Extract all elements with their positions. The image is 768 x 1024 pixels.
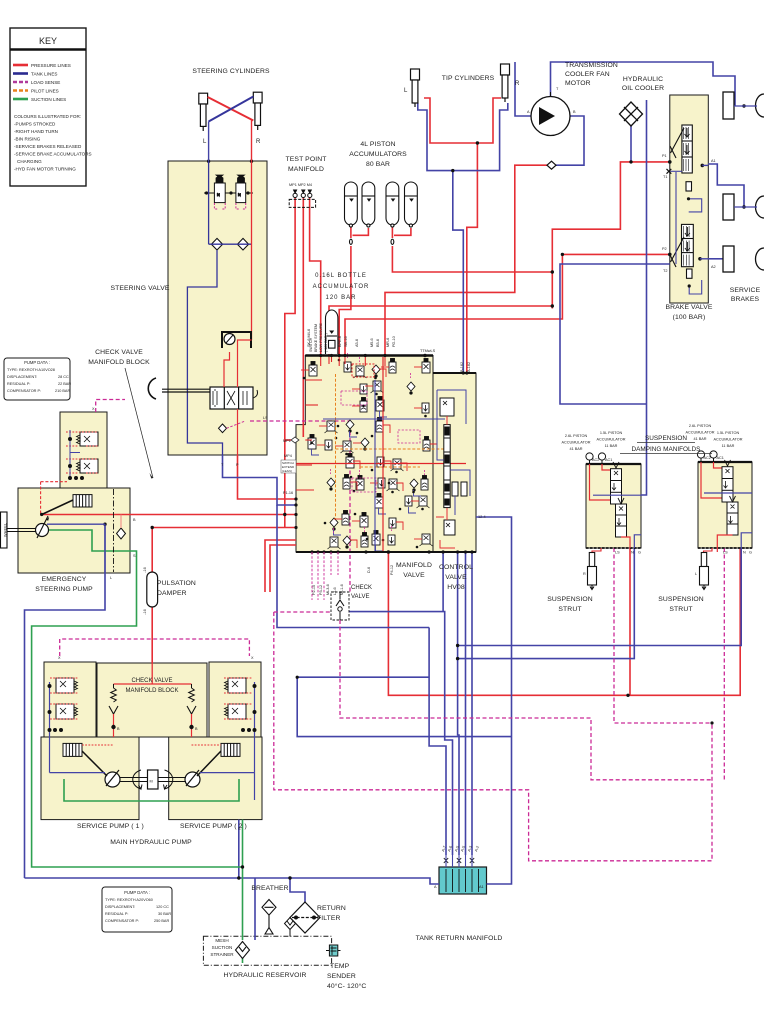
svg-text:ACCUMULATOR: ACCUMULATOR (597, 438, 626, 442)
main pump left block internals (48, 678, 78, 773)
svg-text:AC2: AC2 (704, 456, 711, 460)
mid check valve dashed box (331, 592, 349, 620)
svg-text:SERVICE PUMP ( 1 ): SERVICE PUMP ( 1 ) (77, 823, 144, 830)
svg-text:STEERING VALVE: STEERING VALVE (111, 285, 170, 292)
svg-text:-16: -16 (143, 609, 147, 615)
wire cv ports to tank manifold (429, 628, 446, 856)
wire tip cylinder blues (418, 103, 508, 171)
service brake pair 3 (723, 246, 764, 272)
svg-text:G: G (749, 551, 752, 555)
4L piston accumulator 1 (345, 182, 358, 244)
svg-text:BRAKE SYSTEM: BRAKE SYSTEM (314, 324, 318, 352)
svg-text:WHEEL: WHEEL (3, 522, 8, 537)
svg-text:AC1: AC1 (717, 456, 724, 460)
svg-text:LS: LS (263, 416, 268, 420)
transmission cooler fan motor (531, 92, 570, 136)
4L piston accumulator 3 (386, 182, 399, 244)
tip cylinder R (501, 64, 510, 102)
svg-text:TANK LINES: TANK LINES (31, 72, 57, 77)
svg-text:30 BAR: 30 BAR (158, 912, 171, 916)
svg-text:T2: T2 (663, 269, 667, 273)
svg-text:CONTROL: CONTROL (439, 564, 473, 571)
svg-text:MANIFOLD: MANIFOLD (396, 562, 432, 569)
svg-text:-RIGHT HAND TURN: -RIGHT HAND TURN (14, 129, 58, 134)
svg-text:MANIFOLD BLOCK: MANIFOLD BLOCK (125, 688, 178, 694)
svg-text:BPE-6: BPE-6 (338, 336, 342, 347)
svg-text:PUMP DATA :: PUMP DATA : (124, 890, 150, 895)
wire check diamond to motor B (556, 116, 584, 165)
pump data box lower (102, 887, 172, 932)
svg-text:MESH: MESH (215, 938, 228, 943)
svg-text:PULSATION: PULSATION (157, 580, 196, 587)
tip cylinder L (411, 69, 420, 107)
wire bus to reservoir (254, 878, 256, 940)
svg-text:VALVE: VALVE (445, 574, 467, 581)
svg-text:BREATHER: BREATHER (251, 885, 288, 892)
check valve manifold block (upper) (60, 412, 107, 488)
svg-text:TRANSMISSION: TRANSMISSION (565, 62, 618, 69)
mesh suction strainer (236, 942, 250, 959)
test point manifold symbol (289, 190, 315, 207)
svg-text:210 BAR: 210 BAR (55, 389, 70, 393)
wire fan motor feed (385, 165, 547, 355)
svg-text:A1: A1 (711, 159, 716, 163)
emergency steering pump block (18, 488, 130, 573)
wire suction emergency pump (47, 530, 130, 551)
svg-text:-SERVICE BRAKE ACCUMULATORS: -SERVICE BRAKE ACCUMULATORS (14, 152, 92, 157)
steering valve internals (204, 175, 253, 209)
svg-text:LOAD SENSE: LOAD SENSE (31, 80, 60, 85)
svg-text:VALVE: VALVE (351, 594, 369, 600)
service brake pair 2 (723, 194, 764, 220)
svg-text:ACCUMULATOR: ACCUMULATOR (313, 284, 370, 290)
svg-text:4L PISTON: 4L PISTON (360, 141, 395, 148)
svg-text:SUSPENSION: SUSPENSION (658, 596, 704, 603)
wire manifold P to suspension (388, 548, 740, 695)
svg-text:-BIN RISING: -BIN RISING (14, 137, 41, 142)
svg-text:MANIFOLD BLOCK: MANIFOLD BLOCK (88, 359, 150, 366)
svg-text:CHARGING: CHARGING (17, 159, 42, 164)
svg-text:MP4: MP4 (284, 454, 292, 458)
wire test point MP2 down (302, 197, 304, 437)
svg-text:N: N (217, 193, 220, 197)
svg-text:SERVICE PUMP ( 2 ): SERVICE PUMP ( 2 ) (180, 823, 247, 830)
wire test point M4 down (310, 197, 321, 356)
svg-text:FILTER: FILTER (317, 915, 341, 922)
svg-text:STRAINER: STRAINER (210, 952, 234, 957)
svg-text:28 CC: 28 CC (58, 375, 69, 379)
check valve before motor (547, 161, 556, 169)
brake valve internals (667, 125, 702, 294)
svg-text:P2-10: P2-10 (312, 585, 316, 595)
rotated labels manifold bottom (312, 565, 394, 595)
emergency steering pump internals (1, 482, 126, 573)
tank return manifold (439, 867, 487, 894)
suspension strut right (700, 553, 709, 590)
control valve block (433, 373, 476, 552)
main pump left top block (44, 662, 96, 737)
wire manifold to P1 brake feed (329, 306, 552, 356)
crossed steering lines (208, 97, 254, 121)
svg-text:ML1-6: ML1-6 (340, 584, 344, 595)
manifold dashed highlight boxes (341, 364, 420, 492)
svg-text:BRAKE VALVE: BRAKE VALVE (666, 304, 713, 311)
wire check valve block X pilot (96, 400, 125, 413)
svg-text:LOW PRESSURE: LOW PRESSURE (319, 322, 323, 352)
svg-text:COMPENSATOR P:: COMPENSATOR P: (7, 389, 41, 393)
svg-text:120 BAR: 120 BAR (325, 295, 356, 301)
main pump right block internals (224, 678, 256, 773)
steering valve check diamonds (211, 238, 248, 250)
breather (262, 900, 276, 935)
wire steering P to manifold (238, 455, 297, 499)
brake valve block (670, 95, 709, 303)
svg-text:N: N (238, 193, 241, 197)
svg-text:DAMPING MANIFOLDS: DAMPING MANIFOLDS (632, 446, 701, 453)
svg-text:SUCTION LINES: SUCTION LINES (31, 97, 66, 102)
temp sender (326, 945, 341, 956)
svg-text:RESIDUAL P:: RESIDUAL P: (7, 382, 31, 386)
svg-text:2.6L PISTON: 2.6L PISTON (689, 424, 712, 428)
wire test point MP1 down (285, 197, 295, 528)
return filter (290, 902, 320, 933)
svg-text:T1: T1 (663, 175, 667, 179)
svg-text:PUMP DATA :: PUMP DATA : (24, 360, 50, 365)
wire acc2 to acc1 (353, 228, 369, 235)
wire suspension LS links (614, 548, 712, 723)
svg-text:N: N (743, 551, 746, 555)
svg-text:CHECK: CHECK (351, 585, 372, 591)
wire check box tank line (349, 612, 453, 855)
svg-text:N: N (631, 551, 634, 555)
svg-text:CHECK VALVE: CHECK VALVE (95, 349, 143, 356)
pump data upper (7, 360, 71, 393)
svg-text:A-162: A-162 (467, 362, 471, 372)
service pump 2 block (169, 737, 262, 820)
svg-text:LS: LS (723, 551, 728, 555)
svg-text:PRESSURE LINES: PRESSURE LINES (31, 63, 71, 68)
manifold structural lines (296, 357, 466, 552)
svg-text:R: R (515, 81, 520, 87)
svg-text:-16: -16 (143, 567, 147, 573)
svg-text:ACCUMULATOR: ACCUMULATOR (714, 438, 743, 442)
wire acc4 to acc3 (394, 228, 411, 235)
svg-text:DISPLACEMENT:: DISPLACEMENT: (7, 375, 37, 379)
svg-text:STEERING CYLINDERS: STEERING CYLINDERS (192, 68, 270, 75)
svg-text:D-6: D-6 (367, 567, 371, 573)
svg-text:AC1: AC1 (605, 458, 612, 462)
rotated port labels manifold top (307, 322, 471, 372)
small filter check (285, 918, 296, 937)
svg-text:SERVICE: SERVICE (730, 287, 761, 294)
key box (10, 28, 86, 186)
svg-text:ACCUMULATORS: ACCUMULATORS (349, 151, 407, 158)
svg-text:-SERVICE BRAKES RELEASED: -SERVICE BRAKES RELEASED (14, 144, 82, 149)
svg-text:MP1 MP2 M4: MP1 MP2 M4 (289, 183, 312, 187)
svg-text:COLOURS ILLUSTRATED FOR:: COLOURS ILLUSTRATED FOR: (14, 114, 81, 119)
svg-text:A1: A1 (479, 885, 484, 889)
wire emergency pump L to tank bus (25, 524, 106, 878)
wire steering cyl drops (208, 122, 210, 162)
suspension damping manifold left (586, 464, 641, 548)
4L piston accumulator 2 (362, 182, 375, 227)
main pump right top block (209, 662, 261, 737)
wire damper tee to manifold (152, 527, 296, 529)
svg-text:SENDER: SENDER (327, 973, 356, 980)
wire LS trunk left (274, 611, 331, 613)
svg-text:TTMwLS: TTMwLS (420, 349, 436, 353)
svg-text:120 CC: 120 CC (156, 905, 169, 909)
svg-text:11 BAR: 11 BAR (722, 444, 735, 448)
svg-text:R: R (256, 139, 261, 145)
svg-text:P2: P2 (662, 247, 667, 251)
svg-text:1.5L PISTON: 1.5L PISTON (717, 431, 740, 435)
wire oil cooler stub (630, 125, 632, 162)
wire fan motor T line (551, 62, 736, 106)
manifold valve block (296, 356, 433, 553)
svg-text:SB-16: SB-16 (344, 336, 348, 347)
pump data lower (105, 890, 171, 923)
steering cylinder L (199, 93, 208, 131)
svg-text:G: G (638, 551, 641, 555)
svg-text:ACCUMULATOR: ACCUMULATOR (562, 441, 591, 445)
svg-text:1.5L PISTON: 1.5L PISTON (600, 431, 623, 435)
svg-text:22 BAR: 22 BAR (58, 382, 71, 386)
svg-text:MOTOR: MOTOR (565, 80, 591, 87)
svg-text:40°C- 120°C: 40°C- 120°C (327, 982, 366, 990)
wire A2 to pair3 (708, 258, 723, 260)
manifold left edge labels (281, 439, 296, 495)
svg-text:STRUT: STRUT (558, 606, 581, 613)
wire main pump X pilot (60, 639, 250, 656)
svg-text:HV08: HV08 (447, 584, 465, 591)
wire A1 to service brake pair2 (708, 164, 744, 207)
wire steering LS loop (250, 421, 350, 592)
tank manifold rotated labels (441, 845, 480, 852)
svg-text:COMPENSATOR P:: COMPENSATOR P: (105, 919, 139, 923)
4L piston accumulator 4 (405, 182, 418, 227)
svg-text:41 BAR: 41 BAR (693, 437, 706, 441)
magenta port drops below manifold (312, 552, 338, 600)
wire pump drain to bus (238, 820, 240, 878)
svg-text:2.6L PISTON: 2.6L PISTON (565, 434, 588, 438)
service brake pair 1 (723, 92, 764, 119)
svg-text:A5-6: A5-6 (355, 339, 359, 347)
svg-text:B-162: B-162 (460, 362, 464, 372)
0.16L bottle accumulator (326, 310, 338, 354)
svg-text:TYPE: REXROTH A20VO60: TYPE: REXROTH A20VO60 (105, 898, 153, 902)
svg-text:A2: A2 (711, 265, 716, 269)
tank return manifold internals (444, 858, 479, 892)
svg-text:( 123 BAR ): ( 123 BAR ) (324, 333, 328, 352)
svg-text:TANK RETURN MANIFOLD: TANK RETURN MANIFOLD (416, 935, 503, 942)
svg-text:M: M (150, 780, 153, 784)
svg-text:PD-10: PD-10 (392, 336, 396, 347)
svg-text:VALVE: VALVE (403, 572, 425, 579)
svg-text:250 BAR: 250 BAR (154, 919, 169, 923)
wire cv 12-4 to tank box (476, 517, 512, 884)
wire tip cylinder reds (424, 98, 501, 143)
svg-text:(100 BAR): (100 BAR) (673, 314, 706, 321)
pulsation damper (147, 572, 158, 607)
svg-text:AC2: AC2 (592, 458, 599, 462)
svg-text:-PUMPS STROKED: -PUMPS STROKED (14, 122, 56, 127)
svg-text:EMERGENCY: EMERGENCY (42, 576, 87, 583)
svg-text:TYPE: REXROTH A10VO28: TYPE: REXROTH A10VO28 (7, 368, 55, 372)
wire long tank vertical to suspension (646, 100, 648, 404)
manifold valve interior detail (308, 359, 433, 550)
steering cylinder R (253, 92, 262, 130)
suspension manifold left internals (586, 453, 627, 537)
wire suspension left P drop (629, 548, 631, 695)
steering LS diamond (219, 424, 227, 433)
wire tank bus bottom (25, 878, 440, 884)
wire main pump suction (242, 867, 244, 940)
svg-text:P1: P1 (662, 154, 667, 158)
svg-text:DISPLACEMENT:: DISPLACEMENT: (105, 905, 135, 909)
wire return filter to bus (290, 878, 305, 902)
steering valve block (168, 161, 267, 455)
svg-text:L: L (695, 572, 697, 576)
svg-text:MP1: MP1 (283, 439, 291, 443)
wire acc pair1 manifold port (350, 226, 352, 238)
svg-text:LS: LS (615, 551, 620, 555)
svg-text:DAMPER: DAMPER (157, 590, 187, 597)
suspension strut left (588, 553, 597, 590)
wire pump B pressure to manifold (42, 514, 296, 516)
svg-text:COOLER FAN: COOLER FAN (565, 71, 610, 78)
control valve internals (440, 398, 467, 535)
check valve manifold block upper internals (66, 430, 98, 480)
hydraulic reservoir dashed box (203, 936, 331, 965)
svg-text:MAIN HYDRAULIC PUMP: MAIN HYDRAULIC PUMP (110, 839, 192, 846)
service pump 1 block (41, 737, 139, 820)
svg-text:P3-12: P3-12 (319, 585, 323, 595)
svg-text:R: R (583, 572, 586, 576)
service pump combs (63, 743, 240, 756)
svg-text:41 BAR: 41 BAR (569, 447, 582, 451)
wire manifold to P2 brake feed (345, 254, 670, 355)
svg-text:M5-6: M5-6 (370, 338, 374, 347)
svg-text:TEMP: TEMP (330, 963, 350, 970)
svg-text:CHECK VALVE: CHECK VALVE (131, 678, 172, 684)
wire manifold left double red (265, 540, 296, 592)
svg-text:L: L (110, 576, 112, 580)
svg-text:L2-6: L2-6 (333, 587, 337, 595)
svg-text:STRUT: STRUT (669, 606, 692, 613)
suspension damping manifold right (698, 462, 752, 548)
svg-text:OIL COOLER: OIL COOLER (622, 85, 664, 92)
svg-text:RESIDUAL P:: RESIDUAL P: (105, 912, 129, 916)
svg-text:(LEAN): (LEAN) (282, 469, 292, 473)
steering unit (148, 332, 257, 409)
hydraulic oil cooler (620, 102, 643, 126)
svg-text:SWITCH: SWITCH (309, 337, 313, 352)
svg-text:BRAKES: BRAKES (731, 296, 760, 303)
svg-text:MANIFOLD: MANIFOLD (288, 166, 324, 173)
svg-text:TEST POINT: TEST POINT (286, 156, 327, 163)
svg-text:KEY: KEY (39, 36, 57, 46)
wire damper vertical (151, 528, 153, 575)
svg-text:B5-6: B5-6 (376, 339, 380, 347)
suspension manifold right internals (697, 451, 738, 535)
wire steering T to manifold and tank (223, 455, 297, 505)
svg-text:ACCUMULATOR: ACCUMULATOR (686, 431, 715, 435)
svg-text:MR-6: MR-6 (386, 338, 390, 347)
svg-text:-HYD FAN MOTOR TURNING: -HYD FAN MOTOR TURNING (14, 167, 76, 172)
wire accumulator pair1 to manifold (339, 246, 351, 356)
svg-text:P4-12: P4-12 (390, 565, 394, 575)
service pump rotary groups (82, 751, 221, 789)
svg-text:11 BAR: 11 BAR (605, 444, 618, 448)
svg-text:0.16L BOTTLE: 0.16L BOTTLE (315, 273, 367, 279)
main pump centre internals (109, 663, 196, 737)
svg-text:SUSPENSION: SUSPENSION (645, 435, 687, 442)
wire suspension tank bus (458, 548, 742, 646)
svg-text:TIP CYLINDERS: TIP CYLINDERS (442, 75, 495, 82)
wire T2 tank (560, 264, 670, 404)
svg-text:SUSPENSION: SUSPENSION (547, 596, 593, 603)
svg-text:SUCTION: SUCTION (212, 945, 233, 950)
svg-text:STEERING PUMP: STEERING PUMP (35, 586, 93, 593)
main pump centre check valve block (97, 663, 207, 737)
svg-text:HYDRAULIC: HYDRAULIC (623, 76, 663, 83)
wire green loop in main pump (64, 779, 239, 801)
svg-text:12-4: 12-4 (478, 515, 486, 519)
svg-text:HYDRAULIC RESERVOIR: HYDRAULIC RESERVOIR (224, 972, 307, 979)
svg-text:80 BAR: 80 BAR (366, 161, 390, 168)
svg-text:PILOT LINES: PILOT LINES (31, 89, 59, 94)
svg-text:ML3-6: ML3-6 (326, 584, 330, 595)
wire mid tank links (297, 676, 429, 678)
pump data box upper (4, 358, 70, 400)
svg-text:RETURN: RETURN (317, 905, 346, 912)
svg-text:P1-16: P1-16 (283, 491, 293, 495)
wire acc pair2 stem (392, 246, 552, 272)
